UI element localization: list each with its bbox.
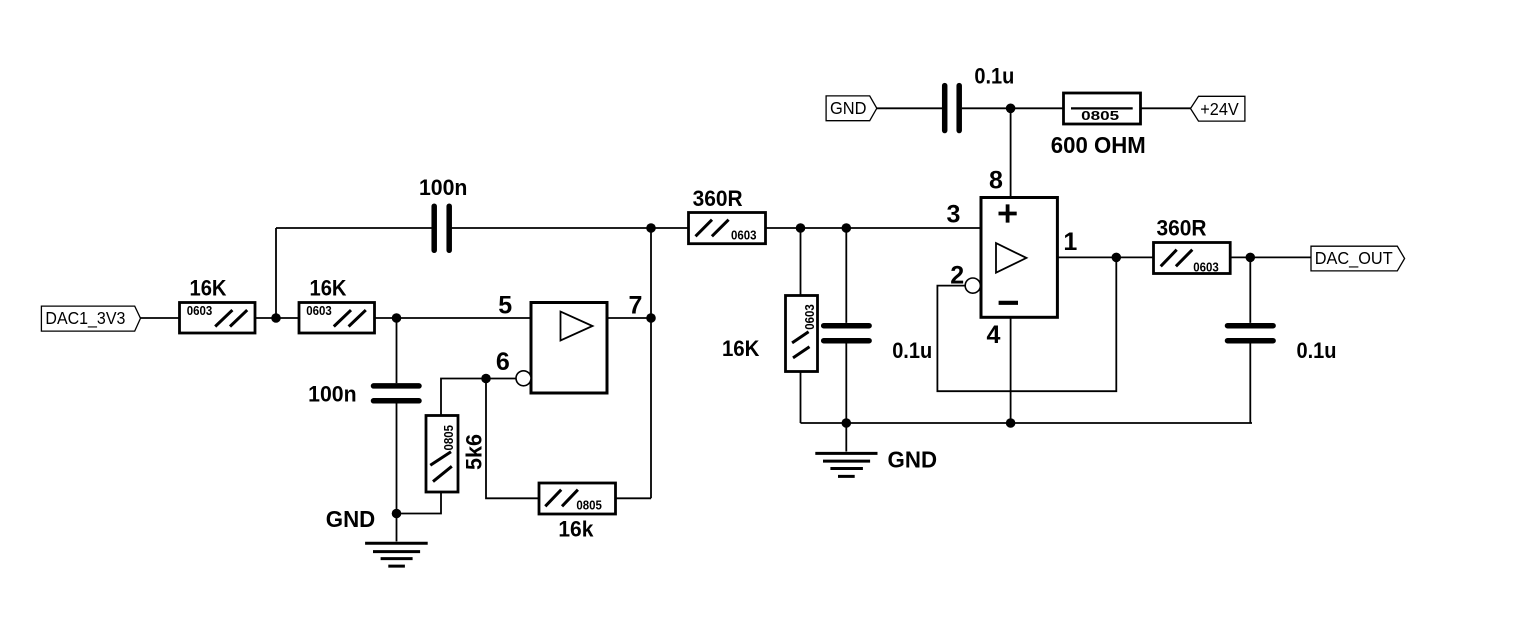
wire vertical pin7 column bbox=[650, 228, 652, 498]
ground symbol right bbox=[815, 423, 877, 476]
svg-text:0.1u: 0.1u bbox=[892, 338, 932, 363]
svg-text:5: 5 bbox=[498, 291, 512, 319]
svg-text:100n: 100n bbox=[419, 175, 468, 200]
resistor 16K 0603 #2 bbox=[299, 303, 375, 334]
capacitor 0.1u (output) bbox=[1228, 326, 1274, 341]
junction 0.1u column bbox=[842, 223, 852, 233]
op-amp U2 (pins 1,2,3,4,8) bbox=[981, 198, 1057, 318]
wire 5k6 bottom to ground node bbox=[397, 492, 442, 514]
svg-text:DAC1_3V3: DAC1_3V3 bbox=[45, 308, 125, 329]
wire capacitor to ferrite bead bbox=[962, 107, 1064, 109]
capacitor 100n (shunt) bbox=[374, 386, 420, 401]
svg-text:0603: 0603 bbox=[306, 303, 332, 318]
svg-text:16K: 16K bbox=[310, 275, 348, 300]
wire pin 7 output bbox=[607, 317, 651, 319]
wire pin 1 output bbox=[1057, 256, 1153, 258]
wire output node down to capacitor 0.1u right bbox=[1249, 257, 1251, 323]
wire R2 to op-amp pin 5 bbox=[375, 317, 532, 319]
junction node between R1 and R2 bbox=[271, 313, 281, 323]
port DAC_OUT bbox=[1311, 246, 1405, 271]
wire ground bus bbox=[801, 422, 1253, 424]
wire GND port to capacitor 0.1u top bbox=[877, 107, 942, 109]
port GND (top) bbox=[826, 96, 877, 121]
svg-text:6: 6 bbox=[496, 348, 510, 376]
junction output node bbox=[1112, 253, 1122, 263]
svg-text:600 OHM: 600 OHM bbox=[1051, 132, 1146, 158]
wire 16k to pin7 column bbox=[616, 497, 652, 499]
junction pin 6 node bbox=[481, 374, 491, 384]
wire pin 8 supply bbox=[1010, 108, 1012, 197]
pin 2 inversion circle bbox=[965, 278, 980, 293]
svg-text:360R: 360R bbox=[1157, 216, 1207, 241]
svg-text:GND: GND bbox=[888, 447, 938, 473]
junction top supply node bbox=[1006, 104, 1016, 114]
svg-text:DAC_OUT: DAC_OUT bbox=[1315, 248, 1393, 269]
wire DAC1_3V3 to resistor 16K #1 bbox=[141, 317, 180, 319]
junction ground node left bbox=[392, 509, 402, 519]
capacitor 0.1u (top) bbox=[945, 86, 960, 131]
svg-text:0603: 0603 bbox=[187, 303, 213, 318]
svg-text:8: 8 bbox=[989, 166, 1003, 194]
wire feedback up from node A bbox=[275, 228, 277, 318]
svg-text:0603: 0603 bbox=[1193, 259, 1219, 274]
svg-text:GND: GND bbox=[830, 98, 867, 118]
wire pin 2 feedback loop bbox=[937, 257, 1116, 391]
svg-text:0.1u: 0.1u bbox=[1297, 338, 1337, 363]
svg-text:4: 4 bbox=[987, 321, 1001, 349]
svg-text:1: 1 bbox=[1063, 228, 1077, 256]
svg-text:0805: 0805 bbox=[576, 497, 602, 512]
resistor 360R 0603 #1 bbox=[689, 213, 766, 244]
wire 360R to op-amp pin 3 bbox=[766, 227, 982, 229]
wire top row to capacitor 100n bbox=[276, 227, 432, 229]
wire R1 to R2 bbox=[255, 317, 299, 319]
wire 360R to DAC_OUT bbox=[1230, 256, 1311, 258]
capacitor 0.1u (mid shunt) bbox=[824, 326, 869, 341]
junction ground bus / gnd symbol bbox=[842, 418, 852, 428]
svg-text:3: 3 bbox=[947, 201, 961, 229]
svg-text:0.1u: 0.1u bbox=[974, 64, 1014, 89]
svg-text:+24V: +24V bbox=[1200, 99, 1239, 119]
resistor 5k6 0805 (vertical) bbox=[426, 416, 458, 493]
wire pin6 node down to 16k feedback resistor bbox=[486, 379, 539, 499]
svg-text:100n: 100n bbox=[308, 382, 357, 407]
svg-text:0805: 0805 bbox=[441, 425, 456, 451]
svg-text:0603: 0603 bbox=[802, 304, 817, 330]
resistor 16K 0603 #1 bbox=[180, 303, 256, 334]
resistor 360R 0603 #2 bbox=[1154, 243, 1231, 275]
svg-text:16k: 16k bbox=[558, 516, 593, 541]
capacitor 100n (series feedback) bbox=[434, 206, 449, 250]
svg-text:360R: 360R bbox=[693, 186, 743, 211]
port +24V bbox=[1191, 96, 1245, 121]
resistor 16K 0603 (vertical) bbox=[786, 296, 818, 372]
wire ferrite to +24V port bbox=[1141, 107, 1191, 109]
wire capacitor 0.1u right to ground bus bbox=[1249, 344, 1251, 424]
svg-text:16K: 16K bbox=[190, 275, 228, 300]
svg-text:GND: GND bbox=[326, 506, 376, 532]
pin 6 inversion circle bbox=[516, 371, 531, 386]
wire capacitor 100n to 360R bbox=[452, 227, 689, 229]
wire capacitor 0.1u mid to ground bus bbox=[845, 344, 847, 424]
svg-text:16K: 16K bbox=[722, 336, 760, 361]
junction top wire / pin7 column bbox=[646, 223, 656, 233]
junction output filter node bbox=[1246, 253, 1256, 263]
svg-text:5k6: 5k6 bbox=[462, 434, 487, 470]
junction ground bus / pin 4 bbox=[1006, 418, 1016, 428]
wire pin 6 bbox=[486, 378, 516, 380]
wire 16K vertical to ground bus bbox=[800, 372, 802, 424]
wire pin6 node to 5k6 bbox=[441, 379, 486, 416]
op-amp U1 buffer (pins 5,6,7) bbox=[531, 303, 607, 394]
svg-text:0805: 0805 bbox=[1081, 108, 1119, 123]
ferrite bead 600 OHM 0805 bbox=[1064, 93, 1141, 124]
wire capacitor to ground node bbox=[396, 404, 398, 514]
port DAC1_3V3 bbox=[41, 306, 140, 331]
junction node R2 output bbox=[392, 313, 402, 323]
ground symbol left bbox=[365, 514, 428, 567]
resistor 16k 0805 feedback bbox=[539, 483, 616, 514]
junction 16K column bbox=[796, 223, 806, 233]
svg-text:7: 7 bbox=[628, 291, 642, 319]
wire pin 4 to ground bus bbox=[1010, 317, 1012, 423]
wire node B down to capacitor 100n shunt bbox=[396, 318, 398, 383]
svg-text:0603: 0603 bbox=[731, 228, 757, 243]
junction pin 7 output bbox=[646, 313, 656, 323]
wire down to capacitor 0.1u mid bbox=[845, 228, 847, 323]
wire down to 16K vertical resistor bbox=[800, 228, 802, 296]
